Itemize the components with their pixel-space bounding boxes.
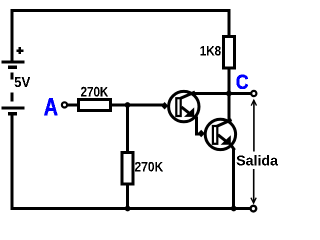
battery B1 5V (2, 47, 31, 115)
transistor Q2 emitter arrowhead (221, 135, 231, 145)
resistor R2 270K vertical (122, 152, 163, 184)
battery dash 1 (10, 72, 13, 79)
wire Q2 emitter down to rail (232, 149, 235, 211)
wire R1 to Q1 base (112, 104, 164, 107)
label 5V (15, 77, 31, 87)
transistor Q2 envelope circle (205, 119, 235, 149)
battery short plate 2 (8, 112, 17, 116)
terminal Salida bottom (251, 206, 257, 212)
Salida measurement arrow top (251, 100, 256, 151)
battery long plate 1 (2, 61, 25, 64)
wire to Q2 base (195, 133, 202, 136)
node C label (237, 75, 249, 89)
transistor Q1 (161, 91, 199, 121)
node junction R1/R2 (125, 102, 131, 108)
wire node C down to Q2 collector (227, 94, 230, 122)
resistor R3 1K8 (200, 36, 234, 68)
wire node C to terminal C (229, 92, 251, 95)
transistor Q2 emitter lead (218, 135, 228, 143)
node C junction (226, 91, 232, 97)
wire Q1 emitter down (195, 117, 198, 136)
node junction R2/rail (125, 206, 131, 212)
wire top rail down to R3 (227, 9, 230, 36)
battery short plate 1 (8, 65, 17, 69)
transistor Q1 collector lead (180, 92, 195, 98)
transistor Q2 base connection diamond (198, 130, 205, 138)
terminal C (251, 91, 256, 96)
transistor Q2 base bar (213, 126, 217, 144)
wire left vertical to battery (10, 9, 13, 61)
battery dash 2 (10, 92, 13, 101)
wire R2 to bottom rail (126, 185, 129, 209)
transistor Q1 base connection diamond (161, 102, 168, 110)
wire junction down to R2 (126, 105, 129, 151)
wire R3 to node C (227, 68, 230, 94)
wire battery to bottom rail (10, 116, 13, 211)
transistor Q1 emitter arrowhead (184, 107, 194, 117)
transistor Q2 collector lead (217, 120, 232, 126)
Salida measurement arrow bottom (251, 169, 256, 203)
wire Q1 collector to node C (193, 92, 231, 95)
label Salida (237, 155, 279, 165)
transistor Q1 base bar (176, 98, 180, 116)
wire bottom rail (10, 207, 250, 210)
node A label (44, 98, 57, 115)
battery plus sign (16, 49, 23, 52)
transistor Q1 envelope circle (169, 91, 199, 121)
wire terminal A to R1 (68, 104, 78, 107)
battery long plate 2 (2, 106, 25, 109)
wire top rail (10, 9, 230, 12)
terminal A (62, 102, 67, 107)
transistor Q2 (198, 119, 236, 149)
node junction emitter/rail (231, 206, 237, 212)
wire Q2 emitter diagonal (230, 144, 235, 151)
resistor R1 270K horizontal (79, 87, 111, 111)
transistor Q1 emitter lead (181, 107, 191, 115)
